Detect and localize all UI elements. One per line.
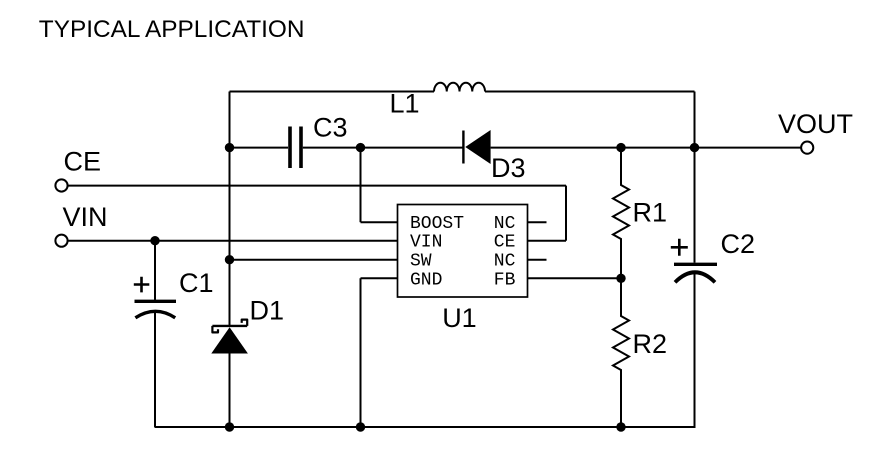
terminal VIN: [55, 235, 67, 247]
capacitor C1: [134, 277, 176, 318]
svg-text:R1: R1: [633, 198, 668, 228]
svg-text:GND: GND: [410, 270, 442, 290]
svg-text:C1: C1: [179, 268, 214, 298]
inductor L1: [434, 83, 485, 92]
junction node SW row: [225, 255, 234, 264]
svg-text:VIN: VIN: [63, 202, 108, 232]
diode D3: [463, 130, 490, 164]
wire NC stub top: [528, 221, 547, 223]
svg-text:NC: NC: [494, 214, 516, 234]
svg-text:C2: C2: [721, 229, 756, 259]
wire node row to C3: [230, 147, 289, 149]
wire C1 branch upper: [154, 241, 156, 300]
wire C3 to D3: [303, 147, 464, 149]
wire SW row: [230, 259, 398, 261]
wire BOOST stub: [361, 221, 398, 223]
svg-text:L1: L1: [390, 88, 420, 118]
junction node FB: [616, 274, 625, 283]
wire right vertical lower / C2 branch: [694, 274, 696, 428]
wire VIN rail: [67, 240, 398, 242]
wire FB to divider: [528, 277, 622, 279]
svg-text:FB: FB: [494, 270, 516, 290]
wire top rail right segment: [485, 91, 695, 93]
svg-text:SW: SW: [410, 252, 432, 272]
svg-text:NC: NC: [494, 252, 516, 272]
junction node R1 top / VOUT rail: [616, 143, 625, 152]
resistor R2: [613, 278, 629, 427]
op-amp U1 box: [398, 205, 528, 298]
wire C1 branch lower: [154, 312, 156, 428]
svg-text:BOOST: BOOST: [410, 214, 464, 234]
wire CE vertical: [565, 186, 567, 241]
junction node C1 / VIN rail: [150, 236, 159, 245]
junction node GND pin / ground rail: [356, 422, 365, 431]
wire D1 to ground rail: [229, 353, 231, 427]
resistor R1: [613, 148, 629, 279]
wire CE to CE pin: [528, 240, 567, 242]
svg-text:D3: D3: [491, 153, 526, 183]
wire GND vertical: [360, 278, 362, 427]
terminal CE: [55, 179, 67, 191]
wire left vertical: [229, 92, 231, 326]
wire D3 to VOUT terminal: [491, 147, 802, 149]
svg-text:VIN: VIN: [410, 233, 442, 253]
capacitor C2: [671, 239, 717, 282]
diode D1: [211, 320, 248, 354]
wire NC stub bottom: [528, 259, 547, 261]
capacitor C3: [290, 127, 301, 169]
wire right vertical upper: [694, 92, 696, 263]
wire GND stub: [361, 277, 398, 279]
wire CE rail: [67, 185, 566, 187]
svg-text:CE: CE: [64, 146, 102, 176]
junction node D1 anode / ground rail: [225, 422, 234, 431]
terminal VOUT: [801, 142, 813, 154]
junction node BOOST / C3 right: [356, 143, 365, 152]
svg-text:CE: CE: [494, 233, 516, 253]
junction node R2 bottom / ground rail: [616, 422, 625, 431]
wire top rail left segment: [230, 91, 435, 93]
svg-text:C3: C3: [313, 113, 348, 143]
svg-text:R2: R2: [633, 329, 668, 359]
svg-text:U1: U1: [442, 303, 477, 333]
junction node C2 top / VOUT rail: [690, 143, 699, 152]
svg-text:D1: D1: [250, 296, 285, 326]
svg-text:VOUT: VOUT: [778, 109, 853, 139]
junction node C3 left / SW vertical: [225, 143, 234, 152]
wire BOOST vertical: [360, 148, 362, 223]
svg-text:TYPICAL APPLICATION: TYPICAL APPLICATION: [39, 16, 305, 43]
wire ground rail: [155, 426, 696, 428]
